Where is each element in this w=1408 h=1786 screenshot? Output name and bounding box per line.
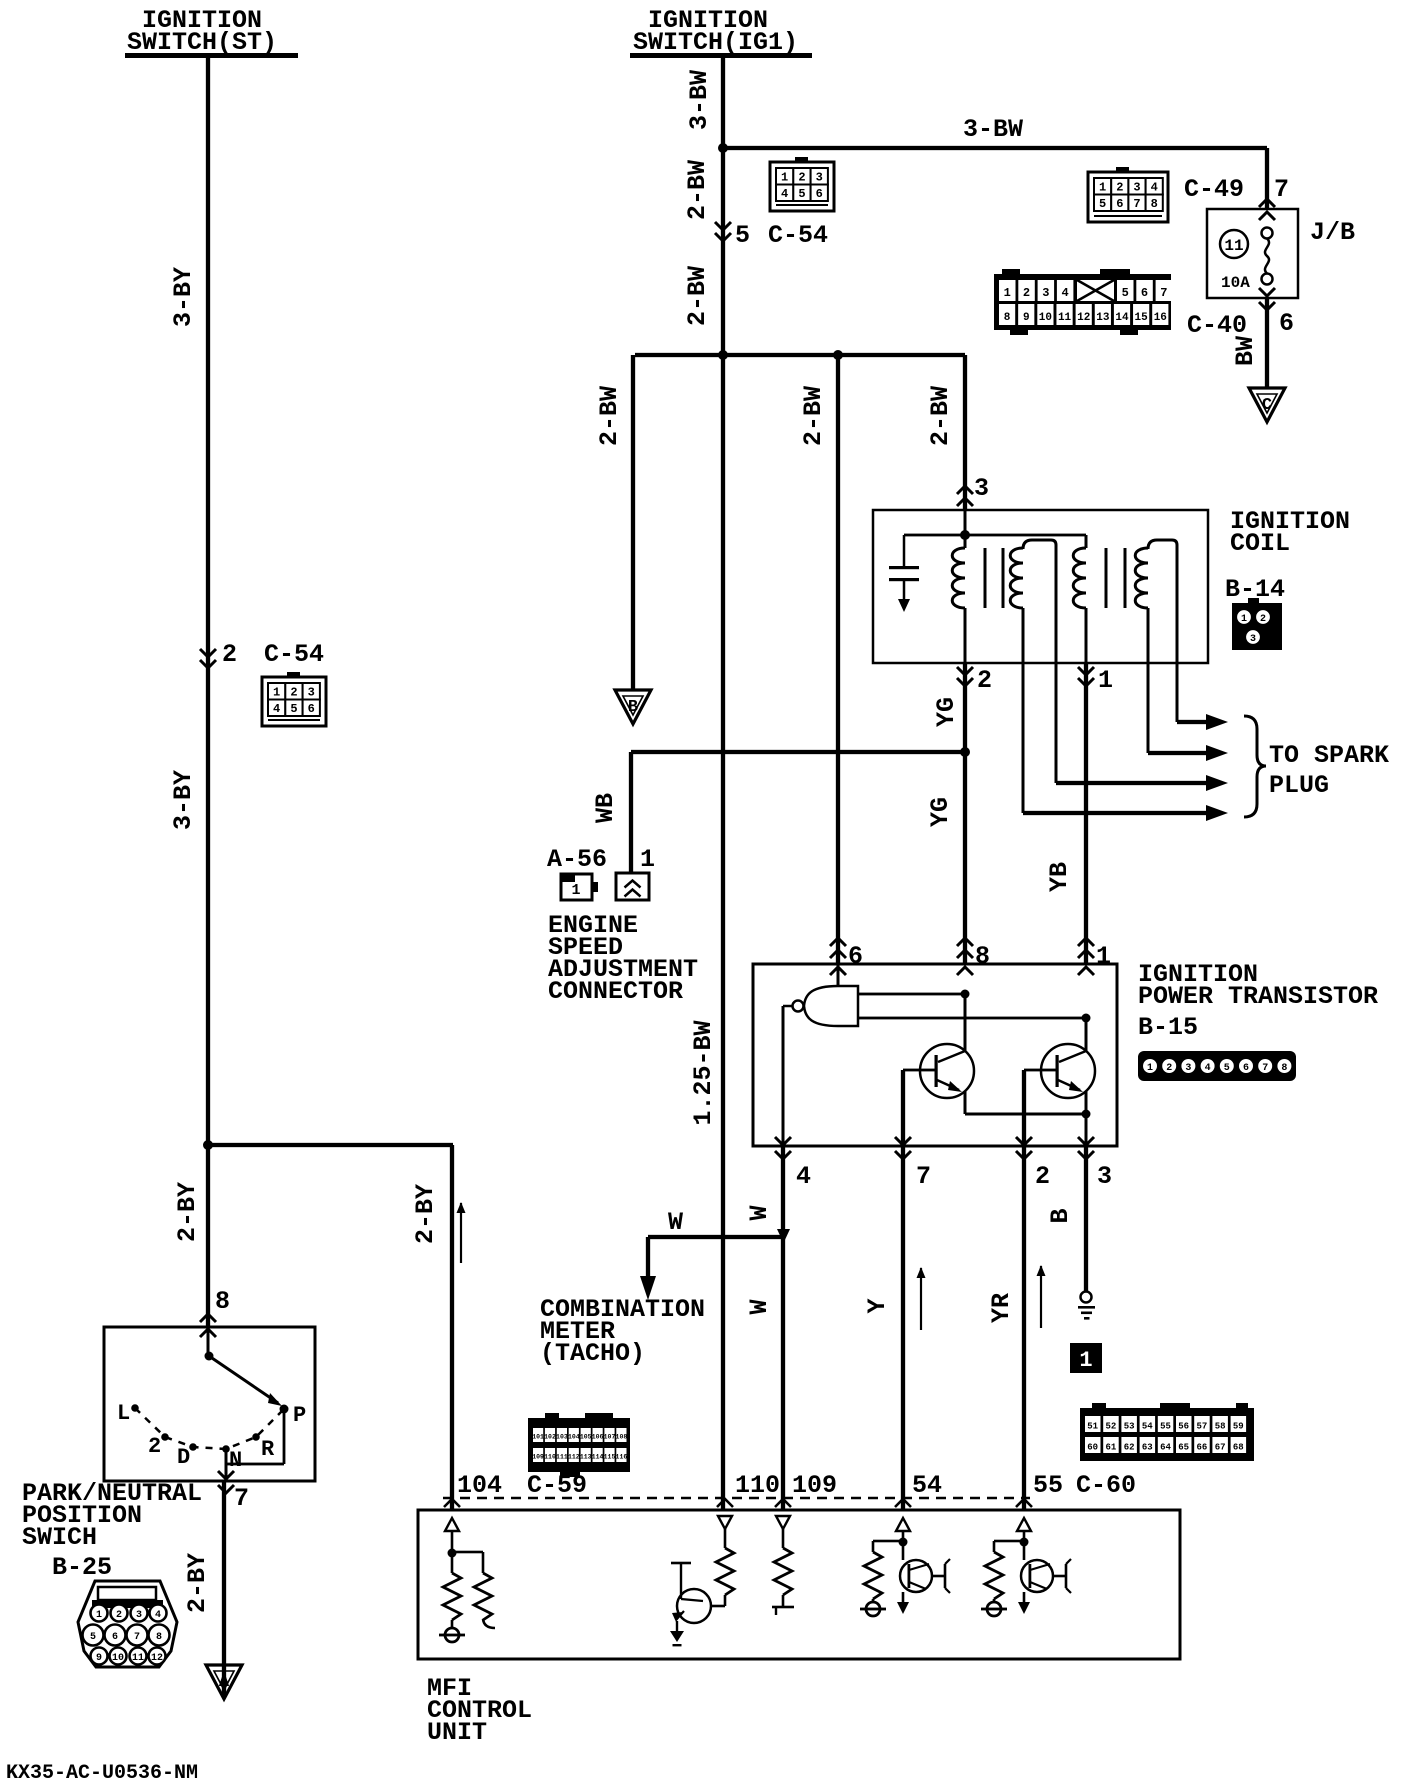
svg-text:2-BW: 2-BW bbox=[799, 386, 828, 446]
svg-text:N: N bbox=[229, 1448, 242, 1473]
svg-text:4: 4 bbox=[1151, 181, 1158, 195]
svg-text:3-BY: 3-BY bbox=[169, 267, 198, 327]
svg-text:8: 8 bbox=[156, 1632, 162, 1643]
svg-text:6: 6 bbox=[816, 187, 823, 201]
svg-text:55: 55 bbox=[1033, 1471, 1063, 1500]
svg-text:1: 1 bbox=[640, 845, 655, 874]
svg-text:3-BY: 3-BY bbox=[169, 770, 198, 830]
svg-text:YB: YB bbox=[1045, 862, 1074, 892]
svg-text:10: 10 bbox=[1039, 312, 1052, 324]
svg-text:SWICH: SWICH bbox=[22, 1523, 97, 1552]
svg-text:2-BW: 2-BW bbox=[683, 160, 712, 220]
svg-text:106: 106 bbox=[592, 1434, 604, 1441]
svg-text:6: 6 bbox=[308, 702, 315, 716]
svg-text:C: C bbox=[1262, 396, 1272, 415]
svg-text:C-49: C-49 bbox=[1184, 175, 1244, 204]
svg-text:4: 4 bbox=[796, 1162, 811, 1191]
svg-text:PLUG: PLUG bbox=[1269, 771, 1329, 800]
svg-text:9: 9 bbox=[1023, 312, 1030, 324]
svg-text:12: 12 bbox=[1077, 312, 1090, 324]
svg-text:3: 3 bbox=[816, 171, 823, 185]
svg-text:110: 110 bbox=[544, 1454, 556, 1461]
svg-text:1: 1 bbox=[1241, 614, 1247, 625]
svg-text:SWITCH(IG1): SWITCH(IG1) bbox=[633, 28, 798, 57]
svg-text:5: 5 bbox=[735, 221, 750, 250]
svg-text:SWITCH(ST): SWITCH(ST) bbox=[127, 28, 277, 57]
svg-text:68: 68 bbox=[1233, 1443, 1244, 1453]
svg-text:7: 7 bbox=[134, 1632, 140, 1643]
svg-text:16: 16 bbox=[1154, 312, 1167, 324]
svg-text:109: 109 bbox=[532, 1454, 544, 1461]
svg-text:B: B bbox=[1046, 1208, 1075, 1223]
svg-text:D: D bbox=[177, 1445, 190, 1470]
svg-text:W: W bbox=[745, 1299, 774, 1314]
svg-text:2: 2 bbox=[977, 666, 992, 695]
svg-text:2-BY: 2-BY bbox=[411, 1184, 440, 1244]
svg-text:2: 2 bbox=[222, 640, 237, 669]
svg-text:57: 57 bbox=[1196, 1422, 1207, 1432]
svg-text:54: 54 bbox=[1142, 1422, 1153, 1432]
svg-text:1.25-BW: 1.25-BW bbox=[689, 1020, 718, 1125]
svg-text:7: 7 bbox=[234, 1484, 249, 1513]
svg-text:7: 7 bbox=[1133, 197, 1140, 211]
svg-text:55: 55 bbox=[1160, 1422, 1171, 1432]
svg-text:108: 108 bbox=[616, 1434, 628, 1441]
svg-text:6: 6 bbox=[1116, 197, 1123, 211]
svg-text:109: 109 bbox=[792, 1471, 837, 1500]
svg-text:111: 111 bbox=[556, 1454, 568, 1461]
svg-text:P: P bbox=[293, 1403, 306, 1428]
svg-text:L: L bbox=[117, 1401, 130, 1426]
svg-text:2: 2 bbox=[1116, 181, 1123, 195]
svg-text:TO SPARK: TO SPARK bbox=[1269, 741, 1389, 770]
svg-text:2: 2 bbox=[1035, 1162, 1050, 1191]
svg-text:3: 3 bbox=[1185, 1063, 1191, 1074]
svg-text:POWER TRANSISTOR: POWER TRANSISTOR bbox=[1138, 982, 1378, 1011]
svg-text:5: 5 bbox=[1224, 1063, 1230, 1074]
svg-text:5: 5 bbox=[1099, 197, 1106, 211]
svg-text:1: 1 bbox=[571, 882, 580, 899]
svg-text:8: 8 bbox=[1151, 197, 1158, 211]
svg-text:14: 14 bbox=[1115, 312, 1129, 324]
svg-text:7: 7 bbox=[916, 1162, 931, 1191]
svg-text:56: 56 bbox=[1178, 1422, 1189, 1432]
svg-text:3-BW: 3-BW bbox=[685, 70, 714, 130]
svg-text:YG: YG bbox=[926, 797, 955, 827]
svg-text:66: 66 bbox=[1196, 1443, 1207, 1453]
svg-text:1: 1 bbox=[1099, 181, 1106, 195]
svg-text:6: 6 bbox=[1243, 1063, 1249, 1074]
svg-text:6: 6 bbox=[1279, 309, 1294, 338]
svg-text:C-59: C-59 bbox=[527, 1471, 587, 1500]
svg-text:3: 3 bbox=[136, 1610, 142, 1621]
svg-text:61: 61 bbox=[1105, 1443, 1116, 1453]
svg-text:2: 2 bbox=[1260, 614, 1266, 625]
svg-text:112: 112 bbox=[568, 1454, 580, 1461]
svg-text:BW: BW bbox=[1231, 336, 1260, 366]
svg-text:54: 54 bbox=[912, 1471, 942, 1500]
svg-text:10A: 10A bbox=[1221, 274, 1250, 292]
svg-text:53: 53 bbox=[1124, 1422, 1135, 1432]
svg-text:52: 52 bbox=[1105, 1422, 1116, 1432]
svg-text:104: 104 bbox=[568, 1434, 580, 1441]
svg-text:A: A bbox=[219, 1673, 230, 1692]
svg-text:5: 5 bbox=[90, 1632, 96, 1643]
svg-text:103: 103 bbox=[556, 1434, 568, 1441]
svg-text:13: 13 bbox=[1096, 312, 1110, 324]
svg-text:1: 1 bbox=[1004, 286, 1011, 300]
svg-text:C-40: C-40 bbox=[1187, 311, 1247, 340]
svg-text:65: 65 bbox=[1178, 1443, 1189, 1453]
svg-text:60: 60 bbox=[1087, 1443, 1098, 1453]
svg-text:B-25: B-25 bbox=[52, 1553, 112, 1582]
svg-text:4: 4 bbox=[781, 187, 788, 201]
svg-text:2: 2 bbox=[1023, 286, 1030, 300]
svg-text:116: 116 bbox=[616, 1454, 628, 1461]
svg-text:7: 7 bbox=[1160, 286, 1167, 300]
svg-text:12: 12 bbox=[151, 1653, 163, 1664]
svg-text:2-BW: 2-BW bbox=[683, 266, 712, 326]
svg-text:102: 102 bbox=[544, 1434, 556, 1441]
svg-text:2-BY: 2-BY bbox=[183, 1553, 212, 1613]
svg-text:101: 101 bbox=[532, 1434, 544, 1441]
svg-text:11: 11 bbox=[132, 1653, 144, 1664]
svg-text:CONNECTOR: CONNECTOR bbox=[548, 977, 683, 1006]
svg-text:3: 3 bbox=[1097, 1162, 1112, 1191]
svg-text:110: 110 bbox=[735, 1471, 780, 1500]
svg-text:4: 4 bbox=[155, 1610, 161, 1621]
svg-text:5: 5 bbox=[798, 187, 805, 201]
svg-text:7: 7 bbox=[1274, 175, 1289, 204]
svg-text:5: 5 bbox=[290, 702, 297, 716]
svg-text:YR: YR bbox=[987, 1293, 1016, 1323]
svg-text:6: 6 bbox=[1141, 286, 1148, 300]
svg-text:YG: YG bbox=[932, 697, 961, 727]
svg-text:1: 1 bbox=[1147, 1063, 1153, 1074]
svg-text:6: 6 bbox=[848, 942, 863, 971]
svg-text:W: W bbox=[745, 1205, 774, 1220]
svg-text:3: 3 bbox=[308, 686, 315, 700]
svg-text:10: 10 bbox=[112, 1653, 124, 1664]
svg-text:R: R bbox=[261, 1437, 275, 1462]
svg-text:8: 8 bbox=[975, 942, 990, 971]
svg-text:2: 2 bbox=[798, 171, 805, 185]
svg-text:7: 7 bbox=[1262, 1063, 1268, 1074]
svg-text:3: 3 bbox=[974, 474, 989, 503]
svg-text:C-60: C-60 bbox=[1076, 1471, 1136, 1500]
svg-text:A-56: A-56 bbox=[547, 845, 607, 874]
svg-text:1: 1 bbox=[96, 1610, 102, 1621]
svg-text:11: 11 bbox=[1058, 312, 1072, 324]
svg-text:8: 8 bbox=[1004, 312, 1011, 324]
svg-text:WB: WB bbox=[591, 793, 620, 823]
svg-text:1: 1 bbox=[1098, 666, 1113, 695]
svg-text:11: 11 bbox=[1224, 237, 1243, 255]
svg-text:2: 2 bbox=[1166, 1063, 1172, 1074]
svg-text:3-BW: 3-BW bbox=[963, 115, 1023, 144]
svg-text:2: 2 bbox=[290, 686, 297, 700]
svg-text:J/B: J/B bbox=[1310, 218, 1355, 247]
svg-text:3: 3 bbox=[1042, 286, 1049, 300]
svg-text:9: 9 bbox=[96, 1653, 102, 1664]
svg-text:58: 58 bbox=[1215, 1422, 1226, 1432]
svg-text:4: 4 bbox=[1061, 286, 1068, 300]
svg-text:B: B bbox=[628, 698, 638, 717]
svg-text:5: 5 bbox=[1122, 286, 1129, 300]
svg-text:62: 62 bbox=[1124, 1443, 1135, 1453]
svg-text:Y: Y bbox=[863, 1298, 892, 1313]
svg-text:15: 15 bbox=[1135, 312, 1149, 324]
svg-text:(TACHO): (TACHO) bbox=[540, 1339, 645, 1368]
svg-text:3: 3 bbox=[1250, 634, 1256, 645]
svg-text:8: 8 bbox=[1281, 1063, 1287, 1074]
svg-text:1: 1 bbox=[1079, 1348, 1092, 1373]
svg-text:2-BW: 2-BW bbox=[926, 386, 955, 446]
svg-text:B-15: B-15 bbox=[1138, 1013, 1198, 1042]
svg-text:4: 4 bbox=[1205, 1063, 1211, 1074]
svg-text:1: 1 bbox=[1096, 942, 1111, 971]
svg-text:W: W bbox=[668, 1208, 683, 1237]
svg-text:COIL: COIL bbox=[1230, 529, 1290, 558]
svg-text:114: 114 bbox=[592, 1454, 604, 1461]
svg-text:C-54: C-54 bbox=[264, 640, 324, 669]
svg-text:1: 1 bbox=[781, 171, 788, 185]
svg-text:8: 8 bbox=[215, 1287, 230, 1316]
svg-text:2-BY: 2-BY bbox=[173, 1182, 202, 1242]
svg-text:2-BW: 2-BW bbox=[595, 386, 624, 446]
svg-text:1: 1 bbox=[273, 686, 280, 700]
svg-text:113: 113 bbox=[580, 1454, 592, 1461]
svg-text:4: 4 bbox=[273, 702, 280, 716]
svg-text:2: 2 bbox=[148, 1434, 161, 1459]
svg-text:104: 104 bbox=[457, 1471, 502, 1500]
svg-text:C-54: C-54 bbox=[768, 221, 828, 250]
svg-text:105: 105 bbox=[580, 1434, 592, 1441]
svg-text:UNIT: UNIT bbox=[427, 1718, 487, 1747]
svg-text:63: 63 bbox=[1142, 1443, 1153, 1453]
svg-text:3: 3 bbox=[1133, 181, 1140, 195]
svg-text:2: 2 bbox=[116, 1610, 122, 1621]
svg-text:64: 64 bbox=[1160, 1443, 1171, 1453]
svg-text:107: 107 bbox=[604, 1434, 616, 1441]
svg-text:KX35-AC-U0536-NM: KX35-AC-U0536-NM bbox=[6, 1762, 198, 1785]
svg-text:51: 51 bbox=[1087, 1422, 1098, 1432]
svg-text:115: 115 bbox=[604, 1454, 616, 1461]
svg-text:6: 6 bbox=[112, 1632, 118, 1643]
svg-text:67: 67 bbox=[1215, 1443, 1226, 1453]
svg-text:59: 59 bbox=[1233, 1422, 1244, 1432]
